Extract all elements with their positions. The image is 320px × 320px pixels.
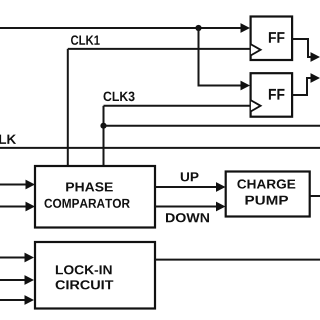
arrowhead into FF2 D input [241, 81, 251, 91]
label PUMP [246, 196, 289, 205]
charge pump block [226, 172, 310, 217]
junction dot on CLK3 vertical [100, 123, 106, 129]
flip-flop FF2 [251, 73, 293, 117]
wire CLK3 horizontal to FF2 clock [104, 105, 251, 107]
arrowhead FF2 output [311, 73, 320, 83]
wire top input line to FF1 D [0, 27, 242, 29]
arrowhead DOWN into charge pump [216, 202, 226, 212]
arrowhead UP into charge pump [216, 182, 226, 192]
arrowhead lock-in input 3 [25, 295, 35, 305]
label FF2 text [269, 89, 285, 100]
label UP [181, 172, 199, 181]
wire FF2 output [292, 78, 311, 95]
label CLK1 [71, 35, 100, 45]
FF1 clock input open triangle [251, 44, 261, 55]
wire CLK full-width line [0, 147, 320, 149]
arrowhead phase comparator input 1 [26, 180, 36, 190]
wire UP from phase comparator to charge pump [155, 186, 218, 188]
phase comparator block [35, 166, 155, 228]
junction dot on top line [195, 25, 201, 31]
wire phase comparator input 2 [0, 206, 27, 208]
wire lock-in input 3 [0, 299, 26, 301]
label CLK (clipped at left edge) [0, 135, 16, 145]
wire lock-in input 1 [0, 257, 26, 259]
wire from CLK3 junction to right edge [104, 125, 320, 127]
lock-in circuit block [35, 242, 155, 309]
label CHARGE [237, 179, 295, 188]
arrowhead phase comparator input 2 [26, 202, 36, 212]
wire CLK1 horizontal to FF1 clock [68, 48, 251, 50]
arrowhead lock-in input 1 [25, 253, 35, 263]
arrowhead FF1 output [311, 52, 320, 62]
wire CLK3 vertical down to phase comparator [103, 106, 105, 166]
label CLK3 [104, 92, 135, 102]
wire lock-in output [155, 259, 320, 261]
label DOWN [166, 213, 209, 222]
label COMPARATOR [45, 199, 130, 208]
arrowhead lock-in input 2 [25, 275, 35, 285]
label FF1 text [269, 32, 285, 43]
wire lock-in input 2 [0, 279, 26, 281]
wire CLK1 vertical down to phase comparator [67, 49, 69, 166]
wire charge pump output [310, 195, 320, 197]
label LOCK-IN [56, 265, 112, 274]
arrowhead into FF1 D input [241, 23, 251, 33]
FF2 clock input open triangle [251, 100, 261, 111]
wire DOWN from phase comparator to charge pump [155, 206, 218, 208]
wire FF1 output [292, 39, 311, 57]
flip-flop FF1 [251, 17, 293, 61]
label CIRCUIT [56, 280, 114, 289]
wire from junction down to FF2 D [199, 28, 242, 86]
label PHASE [66, 182, 113, 191]
wire phase comparator input 1 [0, 184, 27, 186]
